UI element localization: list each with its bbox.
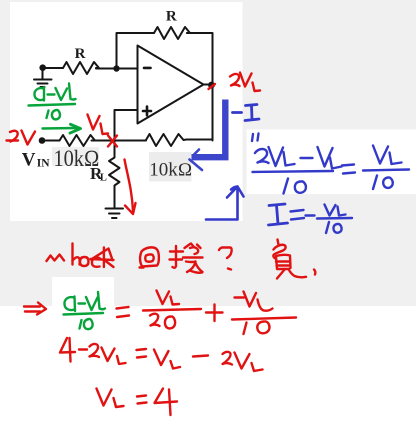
svg-text:R: R xyxy=(166,8,177,24)
svg-text:10kΩ: 10kΩ xyxy=(54,146,100,171)
svg-text:L: L xyxy=(100,172,107,183)
svg-text:10kΩ: 10kΩ xyxy=(149,160,192,180)
svg-text:V: V xyxy=(22,149,36,170)
svg-text:R: R xyxy=(75,46,86,62)
svg-text:IN: IN xyxy=(37,157,50,169)
